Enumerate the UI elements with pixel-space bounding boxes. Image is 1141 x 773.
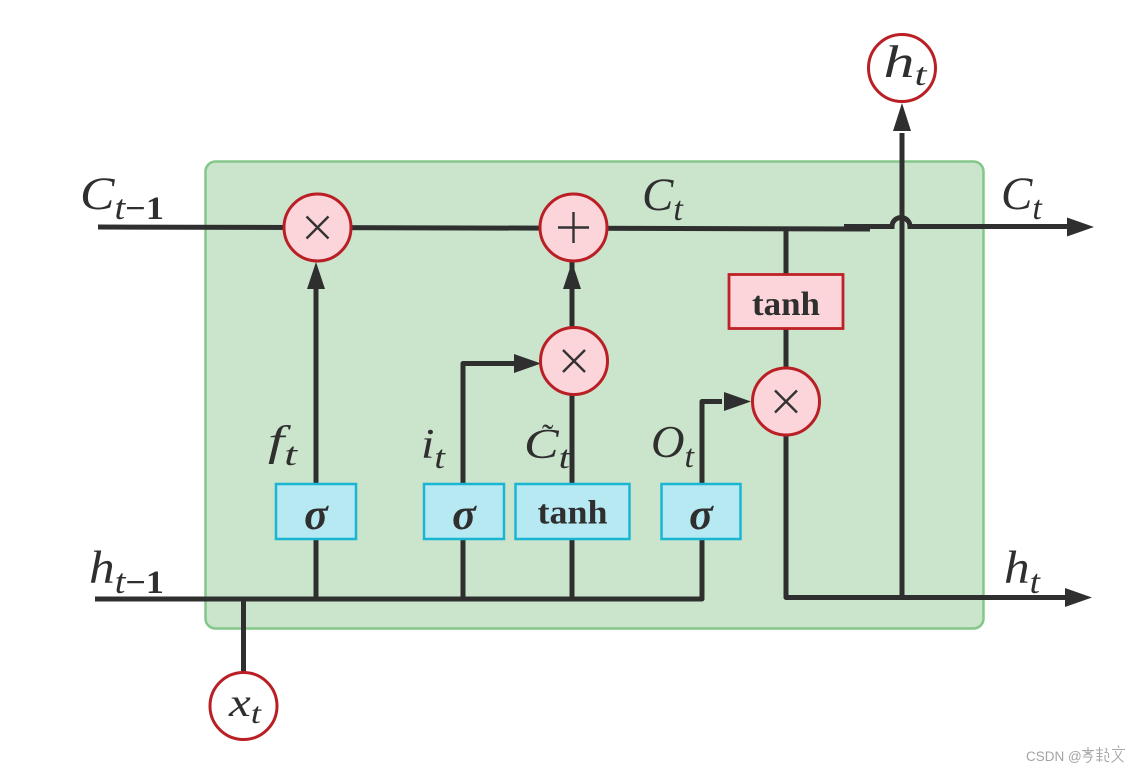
watermark glyph li [1082,747,1094,763]
arrowhead ht right [1065,588,1092,607]
multiply node output [753,368,820,435]
wire Ct-1 main line [98,227,870,229]
arrowhead up into multiply 1 [307,262,325,289]
sigma gate box forget [276,484,356,539]
wire ht vertical [900,133,905,599]
svg-text:σ: σ [689,490,714,539]
svg-text:tanh: tanh [538,495,608,532]
wire Ct~ vertical [570,250,575,599]
wire ht-1 bottom line into Ot sigma [95,402,722,600]
watermark glyph qian [1096,747,1109,762]
multiply node forget [284,194,351,261]
sigma gate box input [424,484,504,539]
svg-text:Ct−1: Ct−1 [80,168,164,227]
sigma gate box output [662,484,741,539]
arrowhead right into multiply mid [514,354,541,373]
LSTM cell body [206,162,984,629]
wire xt branch [241,599,246,672]
svg-text:ht: ht [1004,542,1042,601]
multiply node candidate [541,328,608,395]
svg-text:tanh: tanh [752,286,820,323]
svg-text:CSDN @: CSDN @ [1026,749,1082,764]
plus node [540,194,607,261]
watermark glyph wen [1112,746,1126,763]
wire tanh branch down to output line [786,227,1066,598]
arrowhead right into multiply out [724,392,751,411]
svg-text:ht−1: ht−1 [89,542,164,601]
arrowhead Ct right [1067,218,1094,237]
wire ft vertical [314,280,319,599]
svg-text:σ: σ [304,490,329,539]
wire it vertical with turn [463,364,514,600]
svg-text:Ct: Ct [1001,168,1043,227]
tanh gate box candidate [516,484,630,539]
arrowhead up into ht circle [893,103,911,131]
tanh box on cell line [729,275,843,329]
arrowhead up into plus [563,262,581,289]
svg-text:σ: σ [452,490,477,539]
wire Ct hop segment over h line [844,218,1068,227]
node ht top circle [869,35,936,102]
node xt bottom circle [210,673,277,740]
